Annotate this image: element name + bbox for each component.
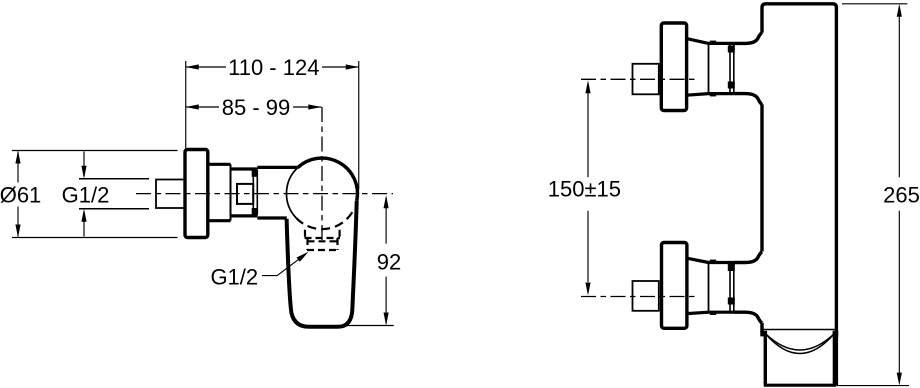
svg-text:92: 92 [377,250,401,275]
svg-text:G1/2: G1/2 [62,183,110,208]
svg-text:110 - 124: 110 - 124 [228,55,319,80]
svg-text:85 - 99: 85 - 99 [222,95,291,120]
svg-text:G1/2: G1/2 [210,265,258,290]
svg-text:150±15: 150±15 [548,177,621,202]
svg-text:Ø61: Ø61 [0,183,41,208]
svg-text:265: 265 [883,182,920,207]
